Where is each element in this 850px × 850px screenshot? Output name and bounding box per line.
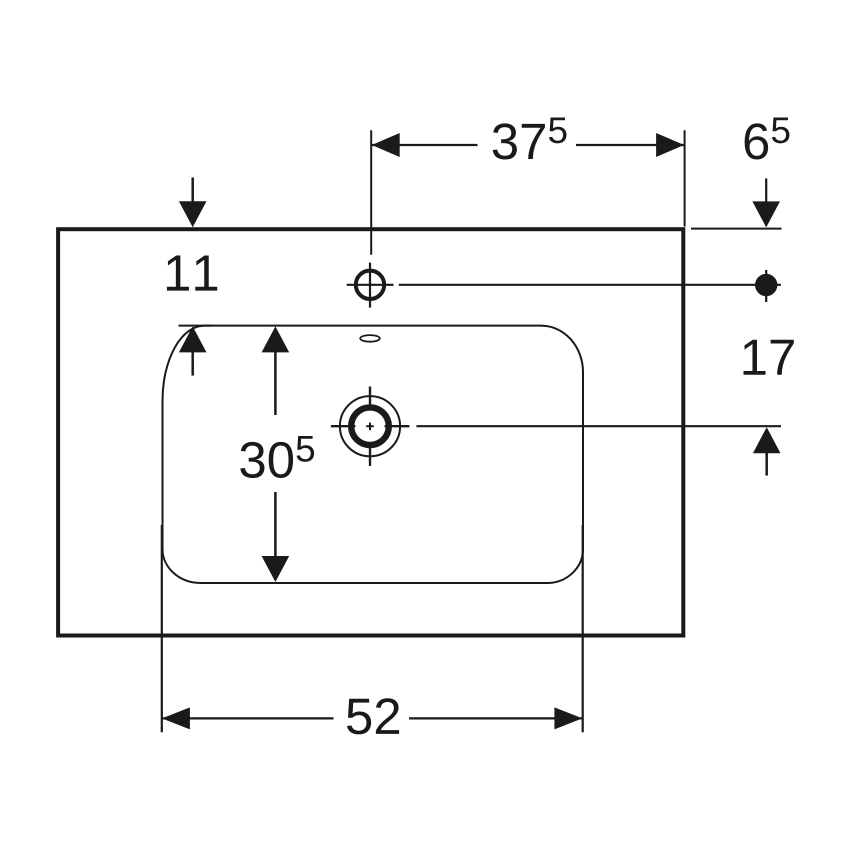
dim 37.5 right arrow (656, 133, 684, 157)
dim 11 top arrow tail (191, 178, 194, 204)
dim 17 dot tick (765, 270, 767, 302)
dim 30.5 lower tail (274, 492, 277, 557)
dim 37.5 label (493, 118, 567, 160)
drain center plus (366, 425, 374, 427)
dim 52 left extension line (161, 525, 163, 732)
drain crosshair vertical upper (369, 387, 371, 411)
dim 11 down arrow (179, 201, 207, 227)
dim 30.5 down arrow (262, 556, 290, 582)
dim 37.5 left extension line (370, 130, 372, 255)
dim 37.5 left arrow (372, 133, 400, 157)
drain reference line (416, 425, 781, 427)
dim 17 arrow tail (765, 452, 768, 476)
dim 30.5 upper tail (274, 351, 277, 415)
dim 6.5 down arrow (752, 201, 780, 227)
washtop outer rectangle (58, 229, 683, 635)
dim 6.5 label (745, 118, 790, 160)
dim 37.5 right extension line (684, 130, 686, 226)
dim 37.5 line right segment (576, 144, 684, 146)
drain crosshair horizontal left (331, 425, 356, 427)
faucet reference line to dot (399, 284, 781, 286)
dim 30.5 up arrow (262, 326, 290, 352)
dim 6.5 arrow tail (765, 178, 767, 203)
basin inner rounded outline (163, 326, 584, 583)
drain crosshair horizontal right (385, 425, 410, 427)
drain outer circle (340, 396, 400, 456)
dim 17 dot (755, 274, 777, 296)
faucet crosshair vertical (369, 263, 371, 308)
basin top edge extension line (left) (179, 325, 213, 327)
dim 52 right extension line (582, 525, 584, 732)
dim 6.5 reference line (691, 228, 782, 230)
dim 37.5 line left segment (372, 144, 478, 146)
overflow slot (360, 335, 380, 342)
drain inner ring (351, 407, 389, 445)
drain crosshair vertical lower (369, 442, 371, 466)
dim 17 label (744, 340, 794, 375)
dim 52 line right segment (409, 717, 582, 719)
faucet hole circle (356, 271, 384, 299)
dim 52 left arrow (162, 707, 190, 729)
dim 52 label (347, 698, 399, 734)
dim 17 up arrow (753, 427, 781, 453)
faucet crosshair horizontal (347, 284, 394, 286)
dim 30.5 label (240, 436, 314, 478)
dim 52 right arrow (554, 707, 582, 729)
dim 11 up arrow (179, 326, 207, 352)
dim 11 label (167, 256, 217, 291)
dim 52 line left segment (162, 717, 334, 719)
dim 11 bottom arrow tail (191, 351, 194, 376)
